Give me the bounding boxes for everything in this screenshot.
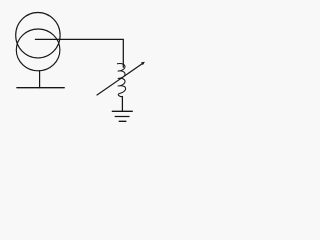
variable arrow across inductor <box>97 63 143 95</box>
wire from transformer center to right corner and down <box>35 39 123 67</box>
arrowhead <box>141 62 145 65</box>
transformer T1 top circle <box>16 13 60 58</box>
ground G2 bar 3 <box>119 120 126 122</box>
ground G1 bar <box>17 87 64 89</box>
wire from coil to ground <box>121 97 123 112</box>
wire transformer to left ground <box>39 71 41 88</box>
ground G2 bar 1 <box>112 110 132 112</box>
transformer T1 bottom circle <box>16 29 60 71</box>
inductor L1 coil <box>117 64 125 97</box>
ground G2 bar 2 <box>115 116 129 118</box>
